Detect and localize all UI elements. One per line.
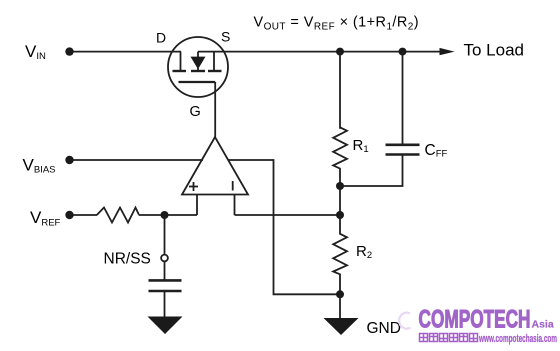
transistor Q1 drain contact [173,52,187,71]
svg-text:G: G [190,104,201,120]
wire VIN to MOSFET drain [73,51,181,53]
ground symbol (NR/SS) [148,317,183,335]
wire VOUT rail (source to load) [198,51,441,53]
wire resistor to plus input [139,214,197,216]
op-amp plus input marking [189,182,198,191]
svg-text:GND: GND [367,320,401,337]
node VOUT junction at CFF [399,48,407,56]
transistor Q1 body circle [168,37,228,97]
node NR/SS junction dot [161,211,169,219]
wire plus input vertical [196,195,198,216]
resistor R1 [333,127,347,186]
wire gate to op-amp [214,82,216,137]
ground symbol (GND) [324,318,359,335]
wire CFF bottom to R1 node [340,155,403,187]
node feedback junction [336,211,344,219]
op-amp U1 [182,137,248,195]
wire junction down to NR/SS pin [164,215,166,254]
node R1 bottom junction [336,182,344,190]
wire VREF to resistor [73,214,97,216]
svg-text:Asia: Asia [532,319,554,331]
node VIN terminal dot [65,47,73,55]
capacitor CFF top plate [386,144,420,147]
transistor Q1 source contact [208,52,222,71]
op-amp minus input marking [232,181,234,191]
wire NR/SS pin to capacitor [164,262,166,280]
transistor Q1 body contact bar [191,70,205,72]
svg-text:D: D [156,30,166,46]
logo watermark crescent [399,313,410,329]
capacitor CNR top plate [149,279,182,282]
node VREF terminal dot [65,211,73,219]
wire capacitor to ground [164,291,166,317]
resistor RNR (VREF series) [97,208,139,223]
node R2 bottom junction [336,290,344,298]
wire feedback to divider node [235,214,341,216]
wire CFF top [402,52,404,145]
wire R2 to ground [339,294,341,318]
svg-text:COMPOTECH: COMPOTECH [419,306,531,334]
logo CJK tagline glyph blocks [420,334,478,342]
capacitor CNR bottom plate [149,290,182,293]
resistor R2 [333,215,347,294]
svg-text:www.compotechasia.com: www.compotechasia.com [478,333,557,345]
transistor Q1 gate bar [179,81,216,83]
svg-text:To Load: To Load [464,41,525,60]
node VOUT junction at R1 [336,48,344,56]
node VBIAS terminal dot [65,156,73,164]
arrow to load [440,48,455,55]
wire op-amp ground pin [228,160,341,294]
transistor Q1 body arrow [191,52,206,70]
wire VOUT down to R1 [339,52,341,129]
capacitor CFF bottom plate [386,153,420,156]
node NR/SS pin open circle [161,255,168,262]
wire VBIAS to op-amp [73,159,203,161]
svg-text:NR/SS: NR/SS [104,251,151,268]
wire minus input vertical [234,195,236,216]
wire between divider nodes [339,186,341,215]
svg-text:S: S [221,29,230,45]
